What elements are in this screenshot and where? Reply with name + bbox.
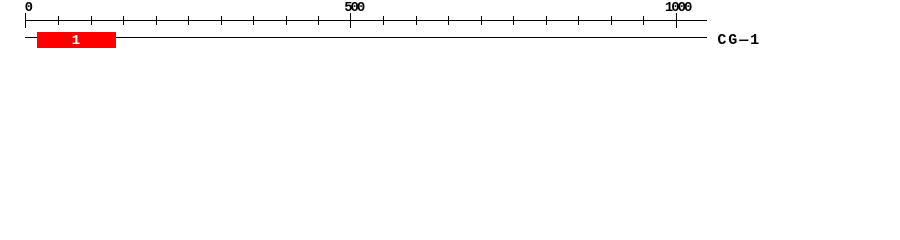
domain box 1 (CG-1 domain) bbox=[37, 32, 116, 48]
domain box label 1 bbox=[72, 34, 80, 48]
sequence line bbox=[25, 37, 707, 38]
ruler label 500 bbox=[344, 1, 363, 15]
minor tick 750 bbox=[513, 16, 514, 25]
minor tick 850 bbox=[578, 16, 579, 25]
minor tick 350 bbox=[253, 16, 254, 25]
minor tick 600 bbox=[416, 16, 417, 25]
minor tick 900 bbox=[611, 16, 612, 25]
minor tick 400 bbox=[286, 16, 287, 25]
major tick 1000 bbox=[676, 13, 677, 28]
sequence name CG-1 bbox=[717, 33, 761, 48]
minor tick 800 bbox=[546, 16, 547, 25]
minor tick 100 bbox=[91, 16, 92, 25]
minor tick 50 bbox=[58, 16, 59, 25]
minor tick 550 bbox=[383, 16, 384, 25]
minor tick 250 bbox=[188, 16, 189, 25]
major tick 0 bbox=[25, 13, 26, 28]
minor tick 150 bbox=[123, 16, 124, 25]
ruler label 0 bbox=[25, 1, 31, 15]
ruler axis line bbox=[25, 20, 707, 21]
minor tick 450 bbox=[318, 16, 319, 25]
major tick 500 bbox=[350, 13, 351, 28]
minor tick 200 bbox=[156, 16, 157, 25]
minor tick 950 bbox=[643, 16, 644, 25]
minor tick 650 bbox=[448, 16, 449, 25]
minor tick 700 bbox=[481, 16, 482, 25]
minor tick 300 bbox=[221, 16, 222, 25]
ruler label 1000 bbox=[665, 1, 690, 15]
